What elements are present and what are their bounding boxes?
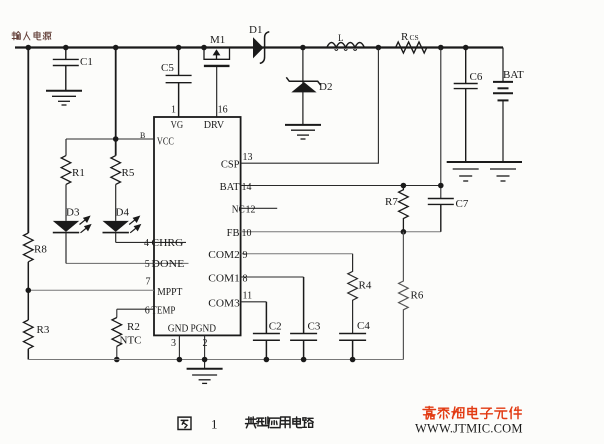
capacitor C1 bbox=[53, 48, 79, 91]
svg-text:12: 12 bbox=[246, 205, 256, 216]
node: C1 junction bbox=[63, 45, 69, 51]
svg-text:COM1: COM1 bbox=[208, 274, 240, 285]
svg-text:R: R bbox=[401, 31, 409, 43]
svg-text:VG: VG bbox=[171, 120, 184, 131]
resistor R7 bbox=[399, 186, 409, 232]
pin 6 TEMP wire bbox=[117, 308, 154, 310]
pin 7 MPPT wire bbox=[28, 289, 154, 291]
svg-text:13: 13 bbox=[243, 152, 253, 163]
svg-text:11: 11 bbox=[243, 291, 253, 302]
svg-text:7: 7 bbox=[146, 277, 151, 288]
node: R5 column junction bbox=[113, 45, 119, 51]
capacitor C2 bbox=[253, 302, 280, 360]
resistor Rcs bbox=[396, 42, 427, 53]
wire: D3 to DONE corner bbox=[65, 233, 67, 264]
wire: VCC node horizontal bbox=[66, 138, 154, 140]
svg-text:D1: D1 bbox=[249, 24, 262, 36]
diode D1 (schottky) bbox=[253, 37, 264, 58]
wire: R1 column top bbox=[65, 139, 67, 156]
pin 12 NC stub bbox=[241, 207, 278, 209]
svg-text:5: 5 bbox=[145, 259, 150, 270]
svg-text:DONE: DONE bbox=[151, 259, 184, 270]
wire: bottom ground rail bbox=[28, 359, 403, 361]
wire: R5 to D4 bbox=[115, 184, 117, 221]
svg-text:10: 10 bbox=[242, 228, 252, 239]
svg-text:BAT: BAT bbox=[220, 182, 240, 193]
battery BAT bbox=[493, 48, 513, 163]
svg-text:9: 9 bbox=[243, 250, 248, 261]
svg-text:R3: R3 bbox=[37, 324, 50, 336]
node: R2 bottom junction bbox=[114, 357, 120, 363]
resistor R8 bbox=[23, 233, 33, 262]
node: BAT wire x C7 column bbox=[438, 183, 444, 189]
svg-text:L: L bbox=[338, 33, 344, 43]
wire: R2 to bottom rail bbox=[116, 346, 118, 359]
svg-text:C1: C1 bbox=[80, 56, 93, 68]
node: VCC / R5 junction bbox=[113, 136, 119, 142]
svg-text:R4: R4 bbox=[359, 280, 372, 292]
svg-text:4: 4 bbox=[144, 238, 149, 249]
resistor R4 bbox=[348, 254, 358, 334]
capacitor C7 bbox=[428, 199, 454, 232]
svg-text:COM2: COM2 bbox=[208, 250, 240, 261]
svg-text:VCC: VCC bbox=[157, 137, 174, 148]
node: MPPT tap bbox=[26, 288, 32, 294]
svg-text:CHRG: CHRG bbox=[151, 238, 183, 249]
text: watermark 嘉泰姆电子元件 bbox=[423, 407, 436, 420]
capacitor C3 bbox=[290, 277, 317, 360]
op-amp U1: charger IC body bbox=[154, 117, 241, 335]
node: D1 cathode / D2 / L junction bbox=[300, 45, 306, 51]
svg-text:NC: NC bbox=[232, 205, 245, 216]
svg-text:M1: M1 bbox=[210, 34, 225, 46]
wire: top supply rail bbox=[15, 46, 503, 48]
svg-text:PGND: PGND bbox=[191, 324, 217, 335]
wire: R1 to D3 bbox=[65, 184, 67, 221]
node: BAT wire x R7 bbox=[401, 183, 407, 189]
svg-text:R2: R2 bbox=[127, 321, 140, 333]
wire: left rail upper bbox=[27, 48, 29, 234]
pin 5 DONE wire bbox=[66, 262, 189, 264]
ground under D2 bbox=[285, 125, 321, 139]
svg-text:CS: CS bbox=[410, 33, 419, 42]
text: input supply label 输入电源 bbox=[12, 32, 20, 40]
pin 14 BAT wire bbox=[241, 185, 441, 187]
text: caption 图1 典型应用电路 bbox=[178, 417, 191, 429]
svg-text:COM3: COM3 bbox=[208, 299, 240, 310]
pin 4 CHRG wire bbox=[116, 241, 186, 243]
resistor R5 bbox=[111, 156, 121, 185]
svg-text:3: 3 bbox=[171, 338, 176, 349]
pin 2 PGND lead bbox=[204, 335, 206, 359]
wire: Rcs node down to C7 bbox=[440, 48, 442, 199]
svg-text:D2: D2 bbox=[319, 81, 332, 93]
svg-text:CSP: CSP bbox=[221, 160, 240, 171]
svg-text:MPPT: MPPT bbox=[157, 287, 183, 298]
resistor R6 bbox=[399, 232, 409, 360]
resistor R3 bbox=[23, 320, 33, 349]
ground under C1 bbox=[46, 91, 82, 105]
node: FB x R7/R6 junction bbox=[401, 229, 407, 235]
inductor L bbox=[327, 43, 365, 48]
wire: R5 column top bbox=[115, 48, 117, 156]
node: PGND pin junction bbox=[202, 357, 208, 363]
capacitor C6 bbox=[454, 48, 478, 163]
svg-text:NTC: NTC bbox=[120, 335, 142, 347]
ground under BAT bbox=[484, 162, 522, 181]
ground under C6 bbox=[447, 162, 485, 181]
svg-text:R8: R8 bbox=[34, 244, 47, 256]
node: L / Rcs / CSP junction bbox=[376, 45, 382, 51]
svg-text:WWW.JTMIC.COM: WWW.JTMIC.COM bbox=[415, 422, 523, 436]
resistor R2 NTC bbox=[112, 318, 122, 347]
svg-text:14: 14 bbox=[242, 182, 252, 193]
svg-text:16: 16 bbox=[218, 105, 228, 116]
svg-text:GND: GND bbox=[168, 324, 189, 335]
pin 13 CSP wire bbox=[241, 48, 379, 164]
wire: TEMP corner to R2 bbox=[116, 309, 118, 317]
svg-text:6: 6 bbox=[145, 306, 150, 317]
svg-text:8: 8 bbox=[243, 274, 248, 285]
svg-text:C5: C5 bbox=[161, 62, 174, 74]
svg-text:1: 1 bbox=[171, 105, 176, 116]
svg-text:C6: C6 bbox=[470, 71, 483, 83]
capacitor C5 bbox=[166, 48, 192, 118]
svg-text:C7: C7 bbox=[456, 198, 469, 210]
wire: left rail middle bbox=[27, 262, 29, 320]
pin VCC (B) bbox=[116, 138, 154, 140]
node: input junction bbox=[26, 45, 32, 51]
svg-text:FB: FB bbox=[227, 228, 240, 239]
pin 9 COM2 wire bbox=[241, 253, 353, 255]
svg-text:R5: R5 bbox=[122, 167, 135, 179]
svg-text:C3: C3 bbox=[308, 321, 321, 333]
svg-text:BAT: BAT bbox=[503, 69, 524, 81]
capacitor C4 bbox=[339, 334, 366, 360]
svg-text:R7: R7 bbox=[385, 196, 398, 208]
svg-text:D3: D3 bbox=[66, 207, 80, 219]
node: C4 bottom junction bbox=[350, 357, 356, 363]
node: GND pin junction bbox=[177, 357, 183, 363]
resistor R1 bbox=[61, 156, 71, 185]
svg-text:DRV: DRV bbox=[204, 120, 225, 131]
svg-text:C2: C2 bbox=[269, 321, 282, 333]
svg-text:R1: R1 bbox=[72, 167, 85, 179]
transistor M1 (P-MOSFET) bbox=[204, 48, 230, 118]
pin 1 VG lead bbox=[178, 83, 180, 117]
svg-text:D4: D4 bbox=[116, 207, 130, 219]
svg-text:R6: R6 bbox=[411, 290, 424, 302]
pin 10 FB wire bbox=[241, 231, 441, 233]
node: M1 source junction bbox=[201, 45, 207, 51]
svg-text:2: 2 bbox=[203, 338, 208, 349]
pin 11 COM3 wire bbox=[241, 301, 267, 303]
node: C2 bottom junction bbox=[264, 357, 270, 363]
svg-text:1: 1 bbox=[211, 417, 218, 432]
svg-text:C4: C4 bbox=[357, 320, 370, 332]
zener diode D2 bbox=[286, 48, 320, 125]
pin 3 GND lead bbox=[178, 335, 180, 359]
svg-text:TEMP: TEMP bbox=[151, 306, 175, 317]
wire: D4 to CHRG corner bbox=[115, 233, 117, 243]
wire: left rail lower bbox=[27, 349, 29, 360]
ground: main ground symbol bbox=[187, 360, 223, 384]
node: Rcs output junction bbox=[438, 45, 444, 51]
node: C5 junction bbox=[176, 45, 182, 51]
pin 8 COM1 wire bbox=[241, 276, 304, 278]
node: C6 junction bbox=[463, 45, 469, 51]
node: C3 bottom junction bbox=[301, 357, 307, 363]
